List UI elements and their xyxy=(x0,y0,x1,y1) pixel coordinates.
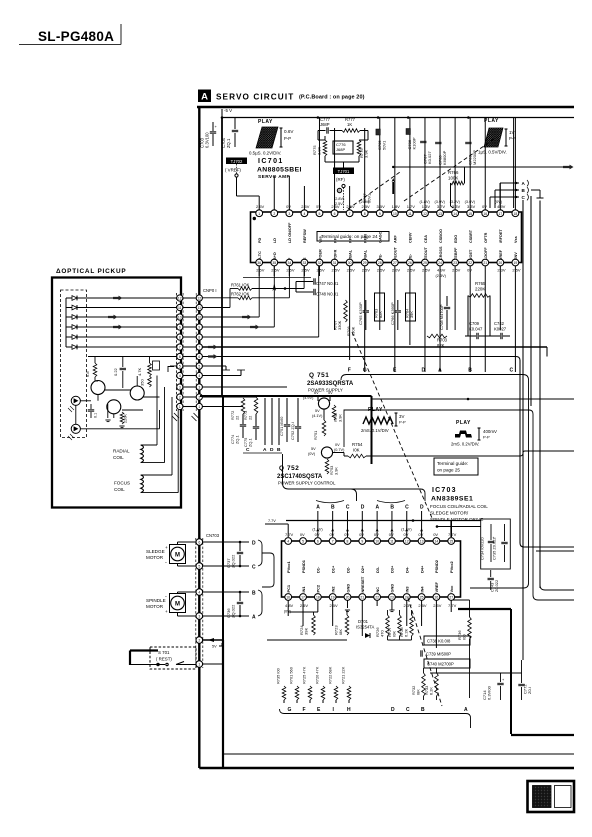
wire pickup internal bottom xyxy=(80,428,159,430)
svg-text:1: 1 xyxy=(179,405,181,409)
connector CNP01 pin 5 board side xyxy=(196,363,202,369)
IC701 bottom pin 30 TBAL xyxy=(346,249,355,273)
svg-text:D701: D701 xyxy=(358,619,369,624)
svg-text:0V: 0V xyxy=(315,532,320,537)
svg-text:(RF): (RF) xyxy=(336,177,345,182)
connector CNP01 pin 10 pickup side xyxy=(177,314,183,320)
wire IC701 top pin riser xyxy=(303,186,305,210)
wire IC701 bottom pin drop xyxy=(499,266,501,330)
svg-text:A: A xyxy=(464,707,468,713)
svg-text:16: 16 xyxy=(286,596,290,600)
svg-text:3: 3 xyxy=(198,386,200,390)
svg-text:-: - xyxy=(165,594,167,600)
photodiode D1 xyxy=(66,296,77,301)
node -5V xyxy=(222,108,232,118)
arrow up pin35 xyxy=(273,283,277,291)
svg-text:2.5V: 2.5V xyxy=(335,202,343,206)
svg-text:TE-: TE- xyxy=(409,253,413,260)
wire cluster rail y640 xyxy=(267,639,347,641)
wire x222 rail drop xyxy=(221,118,223,397)
IC701 bottom pin 19 ENV xyxy=(512,252,521,273)
bus y520.5 xyxy=(286,520,481,522)
IC701 top pin 17 /RFDET xyxy=(495,200,506,243)
svg-text:ZQ.1: ZQ.1 xyxy=(235,435,240,444)
svg-text:3: 3 xyxy=(179,386,181,390)
resistor R753 3.9K xyxy=(325,459,338,475)
svg-text:3.3V: 3.3V xyxy=(452,204,461,209)
IC703 top pin 8 D2- xyxy=(344,532,351,573)
svg-text:C747 N0.01: C747 N0.01 xyxy=(316,281,339,286)
wire c747 join xyxy=(295,282,297,293)
svg-text:400mV: 400mV xyxy=(483,429,497,434)
transistor Q2 pickup xyxy=(107,400,121,414)
page title SL-PG480A xyxy=(19,24,121,45)
wire row7 bus xyxy=(202,346,547,348)
svg-text:10: 10 xyxy=(197,316,201,320)
svg-text:23: 23 xyxy=(390,596,394,600)
wire pickup internal mid xyxy=(80,400,91,402)
svg-text:11: 11 xyxy=(198,306,202,310)
svg-text:1V: 1V xyxy=(509,130,516,135)
wire cluster rail y612 xyxy=(288,611,318,613)
wire jog y277.6 xyxy=(243,277,311,279)
svg-text:82K: 82K xyxy=(437,343,445,348)
wire thin y754 xyxy=(223,753,574,755)
wire IC701 top pin riser xyxy=(454,118,456,210)
capacitor C772 ZQ.1 xyxy=(518,660,532,700)
connector CNP01 pin 3 board side xyxy=(196,384,202,390)
svg-text:Z0.I: Z0.I xyxy=(527,687,532,694)
IC701 bottom pin 36 A.TC xyxy=(256,251,265,273)
svg-text:AN8805SBEI: AN8805SBEI xyxy=(257,167,302,174)
IC703 bottom pin 24 IN3 xyxy=(403,586,412,608)
capacitor C740 M2700P xyxy=(424,659,470,668)
wire letter drop xyxy=(332,511,334,537)
IC701 top pin 18 Vss xyxy=(512,210,519,243)
svg-text:R766: R766 xyxy=(448,170,459,175)
junction pin9/y167 xyxy=(392,166,394,168)
svg-text:7.7V: 7.7V xyxy=(448,532,457,537)
svg-text:IN3: IN3 xyxy=(405,586,410,593)
capacitor C769 M2200P xyxy=(465,142,477,165)
ground symbol top right xyxy=(531,190,544,198)
svg-text:K0027: K0027 xyxy=(494,327,507,332)
svg-text:0V: 0V xyxy=(389,532,394,537)
wire sledge motor xyxy=(177,542,179,545)
svg-text:GND: GND xyxy=(390,584,395,593)
wire row10 to pin36 xyxy=(202,316,259,318)
ground pickup Q2 xyxy=(105,419,110,421)
wire IC701 bottom pin drop short xyxy=(273,266,275,276)
svg-text:3.9K: 3.9K xyxy=(364,149,369,158)
svg-text:G: G xyxy=(288,707,292,713)
node A xyxy=(500,180,529,186)
svg-text:R761 IOK: R761 IOK xyxy=(231,283,250,288)
svg-text:2.5V: 2.5V xyxy=(300,603,309,608)
svg-text:D4-: D4- xyxy=(405,566,410,573)
terminal bracket CADB xyxy=(243,452,282,454)
svg-text:LD: LD xyxy=(273,238,277,243)
svg-text:7: 7 xyxy=(332,540,334,544)
bracket motors BA xyxy=(258,590,262,616)
svg-text:5: 5 xyxy=(319,212,321,216)
IC703 bottom pin 26 VREF xyxy=(433,582,442,608)
wire connector link xyxy=(183,307,196,309)
capacitor C765 K330P xyxy=(358,300,369,330)
svg-text:P-P: P-P xyxy=(399,420,406,425)
svg-text:1.3V: 1.3V xyxy=(422,204,431,209)
svg-text:3.7V: 3.7V xyxy=(437,204,446,209)
svg-text:2.5V: 2.5V xyxy=(377,268,386,273)
resistor R752 3.9K xyxy=(332,405,342,422)
svg-text:2.5V: 2.5V xyxy=(329,603,338,608)
wire -5V rail xyxy=(222,117,574,119)
svg-text:D: D xyxy=(422,368,426,374)
svg-text:7.7V: 7.7V xyxy=(268,519,276,523)
wire IC701 bottom pin drop xyxy=(469,266,471,372)
signal arrow row4 xyxy=(113,325,123,330)
section header A SERVO CIRCUIT xyxy=(198,90,365,103)
svg-text:5V: 5V xyxy=(316,204,321,209)
wire IC701 bottom pin drop xyxy=(424,266,426,372)
wire IC701 bottom pin drop xyxy=(379,266,381,330)
svg-text:0V: 0V xyxy=(344,532,349,537)
wire letter drop xyxy=(317,511,319,537)
svg-text:(4.1V): (4.1V) xyxy=(312,414,323,418)
waveform note PLAY 400mV xyxy=(451,420,497,447)
svg-text:2.5V: 2.5V xyxy=(347,268,356,273)
svg-text:7.7V: 7.7V xyxy=(448,603,457,608)
wire y673 xyxy=(430,672,522,674)
svg-text:2.5V: 2.5V xyxy=(512,268,521,273)
test point TJ701 (RF) xyxy=(333,168,354,188)
wire IC701 top pin riser xyxy=(349,186,351,210)
connector CNP01 pin 1 pickup side xyxy=(177,403,183,409)
wire IC701 bottom pin drop xyxy=(409,266,411,345)
svg-text:7: 7 xyxy=(349,212,351,216)
svg-text:SPINDLE: SPINDLE xyxy=(146,598,166,603)
connector CNP01 pin 9 pickup side xyxy=(177,324,183,330)
svg-text:COIL: COIL xyxy=(113,455,124,460)
svg-text:26: 26 xyxy=(408,261,412,265)
resistor R708 330K xyxy=(346,326,356,336)
svg-text:22: 22 xyxy=(235,416,240,420)
thick bus y735 exit xyxy=(511,734,574,736)
svg-text:5V: 5V xyxy=(311,447,316,451)
svg-text:PC1: PC1 xyxy=(286,584,291,592)
svg-text:LDOFF: LDOFF xyxy=(484,247,488,260)
dashed divider diagonal mid xyxy=(352,332,432,518)
wire x523 lower xyxy=(522,620,524,660)
svg-text:SERVO CIRCUIT: SERVO CIRCUIT xyxy=(216,93,294,102)
svg-text:35: 35 xyxy=(272,261,276,265)
svg-text:5: 5 xyxy=(302,540,304,544)
board frame bottom edge xyxy=(199,767,574,770)
svg-text:P-P: P-P xyxy=(509,136,516,141)
svg-text:0.6V: 0.6V xyxy=(284,129,294,134)
svg-text:A: A xyxy=(316,505,320,511)
wire row5 stub xyxy=(170,365,177,367)
connector CNP01 pin 12 board side xyxy=(196,295,202,301)
svg-text:R703: R703 xyxy=(437,338,448,343)
svg-text:(2.8V): (2.8V) xyxy=(334,197,345,201)
svg-text:ARF: ARF xyxy=(394,235,398,243)
capacitor C748 N0.01 xyxy=(296,289,339,297)
wire rows 5-1 stubs right xyxy=(202,365,226,367)
wire IC703 bottom drop xyxy=(450,601,452,613)
svg-text:4: 4 xyxy=(179,374,181,378)
waveform note PLAY 0.6V xyxy=(249,119,294,156)
svg-text:Z0.022: Z0.022 xyxy=(494,580,499,592)
IC701 top pin 15 CSBRT xyxy=(465,200,476,243)
wire connector link xyxy=(183,356,196,358)
svg-text:14: 14 xyxy=(435,540,439,544)
capacitor C736 ZQ.022 xyxy=(226,592,243,618)
svg-text:NC: NC xyxy=(375,587,380,593)
svg-text:Vcc: Vcc xyxy=(449,585,454,593)
resistor R728 6.2K xyxy=(399,615,413,637)
svg-text:PVcc2: PVcc2 xyxy=(449,560,454,573)
svg-text:C: C xyxy=(510,368,514,374)
svg-text:Vss: Vss xyxy=(514,236,518,243)
capacitor C775 ZQ.1 xyxy=(243,414,259,447)
svg-text:3.9K: 3.9K xyxy=(334,467,339,475)
resistor R777 1K xyxy=(338,117,368,132)
capacitor C704 xyxy=(221,118,238,149)
wire TJ701 drop xyxy=(343,162,345,168)
IC703 top pin 12 D4- xyxy=(401,528,412,574)
IC703 bottom pin 23 GND xyxy=(389,584,396,601)
svg-text:2SA933SQRSTA: 2SA933SQRSTA xyxy=(307,381,354,387)
svg-text:(0.7V): (0.7V) xyxy=(334,448,345,452)
svg-text:0V: 0V xyxy=(482,204,487,209)
svg-text:D: D xyxy=(361,505,365,511)
junction B circle xyxy=(337,188,341,192)
svg-text:13: 13 xyxy=(420,540,424,544)
wire y410 from Q752 xyxy=(344,410,574,600)
wire A row xyxy=(203,615,249,617)
svg-text:17: 17 xyxy=(301,596,305,600)
svg-text:PLAY: PLAY xyxy=(484,118,499,124)
svg-text:16: 16 xyxy=(483,212,487,216)
svg-text:12: 12 xyxy=(197,297,201,301)
svg-text:4: 4 xyxy=(198,374,200,378)
resistor R754 10K xyxy=(333,442,366,458)
wire connector link xyxy=(183,316,196,318)
wire IC701 top pin riser xyxy=(424,118,426,210)
svg-text:50V1: 50V1 xyxy=(367,193,372,203)
wire letter drop xyxy=(361,511,363,537)
svg-text:F: F xyxy=(303,707,306,713)
wire 7.7V rail xyxy=(265,523,288,525)
wire A/B/C risers xyxy=(499,183,501,208)
capacitor 0.1 pickup xyxy=(88,404,98,418)
svg-text:PDFR: PDFR xyxy=(333,249,337,260)
resistor R707 330K xyxy=(333,300,348,330)
wire network bottom xyxy=(324,156,326,162)
transistor Q1 pickup xyxy=(91,381,105,395)
arrow row7 xyxy=(208,345,218,350)
wire letter drop xyxy=(376,511,378,537)
svg-text:C765 K330P: C765 K330P xyxy=(358,302,363,325)
svg-text:+: + xyxy=(165,545,168,550)
svg-text:M2200P: M2200P xyxy=(472,150,477,165)
svg-text:27: 27 xyxy=(393,261,397,265)
svg-text:3: 3 xyxy=(288,212,290,216)
svg-text:2.5V: 2.5V xyxy=(301,268,310,273)
svg-text:A.TC: A.TC xyxy=(258,251,262,260)
svg-text:7: 7 xyxy=(198,346,200,350)
svg-text:2.5V: 2.5V xyxy=(316,268,325,273)
wire pin1 stub xyxy=(258,205,260,210)
svg-text:11: 11 xyxy=(390,540,394,544)
svg-text:R765: R765 xyxy=(475,281,486,286)
connector CNP01 pin 4 board side xyxy=(196,372,202,378)
ground IC703 GND pin xyxy=(345,609,350,611)
svg-text:0V: 0V xyxy=(335,443,340,447)
svg-text:4: 4 xyxy=(287,540,289,544)
svg-text:100K: 100K xyxy=(448,176,458,181)
svg-text:2.0V: 2.0V xyxy=(392,268,401,273)
svg-text:0V: 0V xyxy=(404,532,409,537)
svg-text:B: B xyxy=(331,505,335,511)
svg-text:0V: 0V xyxy=(300,532,305,537)
svg-text:15: 15 xyxy=(449,540,453,544)
IC701 bottom pin 27 FEOUT xyxy=(391,246,400,272)
connector CNP01 pin 5 pickup side xyxy=(177,363,183,369)
IC701 top pin 1 PD xyxy=(256,204,265,243)
resistor R764 39K xyxy=(405,293,416,321)
svg-text:CN703: CN703 xyxy=(206,533,220,538)
svg-text:ΔOPTICAL PICKUP: ΔOPTICAL PICKUP xyxy=(56,268,126,275)
svg-text:22: 22 xyxy=(375,596,379,600)
resistor 4.7K pickup xyxy=(137,357,151,377)
svg-text:21: 21 xyxy=(483,261,487,265)
svg-text:50V1: 50V1 xyxy=(382,140,387,150)
wire spindle motor xyxy=(177,592,179,594)
wire C row xyxy=(203,565,249,567)
connector CNP01 pin 1 board side xyxy=(196,403,202,409)
waveform note PLAY 1V xyxy=(478,118,516,155)
svg-text:VOET: VOET xyxy=(469,249,473,260)
resistor R720 47K xyxy=(315,666,325,703)
svg-text:ZQ.1: ZQ.1 xyxy=(226,138,231,148)
bus y526.5 xyxy=(437,526,481,528)
connector CNP01 pin 11 board side xyxy=(196,304,202,310)
connector CNP01 pin 6 board side xyxy=(196,353,202,359)
Q752 title xyxy=(277,465,336,486)
page navigation icon xyxy=(528,781,575,812)
wire CADB ribbon down xyxy=(283,454,357,501)
svg-text:K0.047: K0.047 xyxy=(469,327,483,332)
wire IC701 top pin riser xyxy=(318,118,320,210)
svg-text:C740 M2700P: C740 M2700P xyxy=(427,662,454,667)
svg-text:2.5V: 2.5V xyxy=(422,268,431,273)
svg-text:3.3V: 3.3V xyxy=(467,204,476,209)
IC701 bottom pin 23 TEBPF xyxy=(452,247,461,273)
svg-text:K6800P: K6800P xyxy=(442,150,447,165)
photodiode PD2 xyxy=(68,424,80,440)
svg-text:C: C xyxy=(405,505,409,511)
wire IC703 bottom drop xyxy=(346,601,348,609)
svg-text:R762 IOK: R762 IOK xyxy=(231,292,250,297)
svg-text:TJ702: TJ702 xyxy=(231,159,243,164)
arrow row10 xyxy=(242,315,252,320)
svg-text:470: 470 xyxy=(380,630,385,637)
IC701 top pin 3 LD ON/OFF xyxy=(286,204,293,243)
connector CN703 pin 5 xyxy=(196,563,203,570)
svg-text:(0V): (0V) xyxy=(284,609,292,613)
IC703 top pin 5 PSND1 xyxy=(300,532,307,573)
IC701 top pin 2 LD xyxy=(271,210,278,243)
svg-text:8: 8 xyxy=(347,540,349,544)
connector dashed cable lines xyxy=(176,293,178,411)
connector CN703 pin 2 xyxy=(196,637,203,644)
svg-text:3.9K: 3.9K xyxy=(338,414,343,422)
bottom terminal row line xyxy=(280,709,471,728)
svg-text:CEA: CEA xyxy=(424,235,428,243)
wire y399 exit xyxy=(372,398,575,400)
IC701 bottom pin 21 LDOFF xyxy=(482,247,489,266)
svg-text:P-P: P-P xyxy=(284,136,291,141)
svg-text:MOTOR: MOTOR xyxy=(146,555,164,560)
svg-text:C751 I6VI0: C751 I6VI0 xyxy=(279,416,284,436)
svg-text:C: C xyxy=(252,565,256,571)
svg-text:D: D xyxy=(270,447,274,453)
capacitor C707 K0.027 xyxy=(420,141,432,164)
IC701 top pin 5 Vss xyxy=(316,204,323,243)
svg-text:11: 11 xyxy=(178,306,182,310)
IC701 top pin 14 EDO xyxy=(450,200,461,243)
svg-text:D2+: D2+ xyxy=(360,565,365,573)
svg-text:0V: 0V xyxy=(374,532,379,537)
wire pickup internal top xyxy=(88,356,177,358)
svg-text:S 701: S 701 xyxy=(158,650,170,655)
svg-text:A: A xyxy=(263,447,267,453)
svg-text:NRESET: NRESET xyxy=(360,576,365,592)
wire y456 long right xyxy=(366,455,520,457)
wire IC701 bottom pin drop short xyxy=(303,266,305,276)
wire pickup signal xyxy=(77,307,177,309)
svg-text:2: 2 xyxy=(273,212,275,216)
ground IC703 GND2 pin xyxy=(389,609,394,611)
svg-text:31: 31 xyxy=(333,261,337,265)
svg-text:B: B xyxy=(468,368,472,374)
junction y399 xyxy=(467,398,470,401)
cable shield marks xyxy=(174,413,179,418)
dashed divider diagonal 2 xyxy=(348,172,400,209)
svg-text:C: C xyxy=(246,447,250,453)
svg-text:F: F xyxy=(348,368,351,374)
svg-text:K0.027: K0.027 xyxy=(427,151,432,164)
svg-text:5: 5 xyxy=(198,365,200,369)
svg-text:PSND1: PSND1 xyxy=(301,559,306,573)
wire IC701 top pin riser xyxy=(288,176,290,210)
svg-text:26: 26 xyxy=(435,596,439,600)
IC701 bottom pin 32 POER xyxy=(316,249,325,273)
svg-text:J68P: J68P xyxy=(320,122,330,127)
svg-text:24: 24 xyxy=(438,261,442,265)
IC701 top pin 8 RFIN xyxy=(359,200,370,243)
capacitor C766 K390P xyxy=(390,300,401,330)
node B xyxy=(495,187,529,193)
wire connector link xyxy=(183,406,196,408)
svg-text:36: 36 xyxy=(257,261,261,265)
IC701 top pin 6 RF xyxy=(331,204,340,243)
svg-text:C739 MI500P: C739 MI500P xyxy=(426,652,451,657)
IC703 top pin 6 D1- xyxy=(312,528,323,574)
IC701 top pin 13 CSBOO xyxy=(435,200,446,243)
